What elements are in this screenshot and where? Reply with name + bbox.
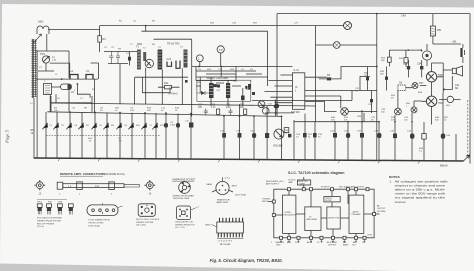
svg-text:AF IN: AF IN	[307, 241, 313, 244]
wire gang to rail	[33, 98, 35, 158]
capacitor C40	[390, 131, 397, 139]
capacitor C36	[357, 131, 364, 138]
svg-text:VOLUME: VOLUME	[273, 146, 283, 148]
svg-text:PIN 1: PIN 1	[37, 202, 43, 204]
wires near pot	[252, 101, 352, 117]
svg-text:TRANSISTOR: TRANSISTOR	[217, 198, 231, 201]
SIC right label	[377, 205, 386, 213]
node d	[376, 66, 378, 68]
svg-text:PIN: PIN	[48, 202, 52, 204]
test point TP1	[196, 55, 203, 67]
svg-text:S.I.C. TA7100 schematic diagra: S.I.C. TA7100 schematic diagram	[288, 171, 345, 175]
detector labels	[197, 69, 254, 92]
SIC left label	[262, 199, 270, 204]
coil L6 slug	[61, 84, 75, 94]
wire long vertical	[277, 14, 377, 160]
svg-text:BASS: BASS	[343, 244, 349, 247]
svg-text:GND: GND	[276, 245, 281, 247]
svg-text:IC: IC	[295, 85, 298, 89]
svg-text:+B1: +B1	[452, 41, 457, 44]
node j2	[77, 83, 79, 85]
electrolytic C38	[374, 131, 381, 139]
tuning gang VC1 ladder	[31, 39, 36, 98]
detector module box	[197, 80, 251, 101]
transistor TR7	[412, 82, 424, 89]
bus C	[192, 66, 293, 68]
resistor R51	[430, 14, 442, 44]
svg-text:REMOTE AMPL CONNECTIONS: REMOTE AMPL CONNECTIONS	[60, 172, 105, 176]
front-end vertical links	[50, 79, 94, 112]
capacitor C24b	[229, 109, 233, 116]
wire bus B corner	[315, 26, 317, 122]
svg-text:AMPLIFIER: AMPLIFIER	[307, 218, 318, 221]
node c2	[220, 66, 222, 68]
svg-text:S.I.C.: S.I.C.	[294, 69, 301, 72]
node bus	[145, 25, 147, 27]
diode D5	[319, 74, 341, 80]
H2 bus	[47, 112, 281, 117]
svg-text:Page 5: Page 5	[5, 129, 10, 144]
svg-text:C13: C13	[167, 58, 172, 61]
transistor base view	[212, 177, 233, 194]
detector cluster wires	[192, 31, 268, 116]
coil L5	[86, 69, 93, 79]
wires detector verticals	[200, 67, 236, 107]
rail end mark	[464, 155, 470, 161]
plug front nut	[34, 180, 45, 196]
aerial AE1	[34, 20, 50, 44]
svg-text:VIEWED ON PINS: VIEWED ON PINS	[136, 222, 154, 224]
diode D16	[152, 123, 158, 130]
svg-text:PHOTO CELL CON BOX: PHOTO CELL CON BOX	[136, 219, 160, 221]
coil L4	[70, 69, 78, 79]
labels detector row	[198, 105, 245, 110]
caption photo cell	[136, 219, 160, 227]
IFT T1	[136, 46, 141, 70]
svg-text:R1: R1	[103, 37, 107, 41]
H1 bus	[51, 103, 316, 106]
svg-text:CHASSIS: CHASSIS	[275, 241, 284, 244]
svg-text:EMIT: EMIT	[232, 185, 238, 187]
earphone socket title	[172, 179, 196, 182]
svg-text:(DIN 41524): (DIN 41524)	[89, 225, 101, 227]
svg-text:TA-7061AP: TA-7061AP	[220, 243, 232, 246]
coil L7	[167, 58, 172, 66]
svg-text:C54: C54	[417, 63, 422, 66]
node j1	[61, 78, 63, 80]
electrolytic C44	[441, 134, 451, 139]
plug barrel	[57, 182, 139, 190]
SIC block preamp	[349, 195, 364, 233]
svg-text:AM DET + AGC AMP: AM DET + AGC AMP	[207, 77, 229, 80]
SIC terminals top	[288, 188, 370, 191]
IFT T3	[158, 50, 163, 70]
capacitor C32	[330, 131, 337, 138]
wire IF top links	[142, 26, 268, 40]
resistor R48	[419, 122, 426, 153]
rail hatching	[58, 158, 420, 164]
svg-text:VIEWED FROM W.POINT: VIEWED FROM W.POINT	[37, 221, 62, 223]
svg-text:COLL: COLL	[225, 177, 231, 179]
svg-text:AMP SUPPLY: AMP SUPPLY	[266, 183, 280, 186]
caption earphone	[173, 194, 195, 200]
diode D14	[128, 123, 134, 130]
transistor TR9	[426, 96, 443, 106]
SIC bottom arrows	[280, 239, 365, 242]
svg-text:1 2 3 4 5 6 7 8 9: 1 2 3 4 5 6 7 8 9	[218, 241, 233, 243]
wire osc row	[36, 78, 98, 80]
plug tip labels	[59, 193, 113, 195]
SIC block if amp	[305, 207, 321, 231]
svg-text:OSCILLATOR COIL: OSCILLATOR COIL	[175, 221, 194, 224]
svg-text:PLUG VIEWED FROM: PLUG VIEWED FROM	[89, 220, 110, 222]
svg-text:VR50: VR50	[205, 225, 211, 227]
svg-text:I.F.: I.F.	[309, 217, 312, 219]
battery B1	[433, 41, 465, 64]
svg-text:(W.MODE PLUG): (W.MODE PLUG)	[105, 172, 125, 176]
S.I.C. IC1	[291, 69, 305, 114]
meter M1	[344, 22, 352, 30]
svg-text:AMP: AMP	[289, 181, 294, 184]
diode D10	[78, 123, 84, 130]
capacitor C11	[185, 121, 193, 128]
IFT T2	[143, 52, 146, 61]
SIC terminals bottom	[280, 236, 367, 239]
IFT T5	[209, 83, 214, 98]
SIC ripple filter	[324, 197, 340, 203]
electrolytic C50	[422, 44, 431, 66]
svg-text:(1.6 + 1.6): (1.6 + 1.6)	[175, 227, 185, 229]
svg-text:NOISE: NOISE	[285, 212, 292, 214]
svg-text:BASE VIEW: BASE VIEW	[217, 201, 228, 204]
capacitor C19	[236, 131, 241, 138]
IF vertical links	[120, 64, 182, 105]
wire IF row	[104, 52, 137, 64]
SIC labels top	[266, 180, 365, 189]
jack SK1	[439, 96, 460, 102]
IC DIP package	[217, 218, 244, 243]
diode D15	[141, 123, 147, 130]
oscillator coil socket	[177, 206, 200, 220]
lamp PL1	[316, 42, 377, 49]
connector pins 3	[58, 204, 63, 215]
svg-text:TR1 B TR2: TR1 B TR2	[167, 43, 180, 46]
transistor TR11	[411, 107, 417, 113]
mid labels row	[54, 108, 180, 112]
svg-text:TR1: TR1	[40, 52, 45, 56]
SIC outer box	[274, 189, 374, 238]
earphone socket	[179, 182, 191, 194]
capacitor C54	[417, 60, 423, 77]
svg-text:receiver.: receiver.	[395, 200, 407, 204]
svg-text:PRE-AMP: PRE-AMP	[352, 213, 362, 216]
labels right row top	[331, 117, 449, 121]
bias row drops left	[46, 104, 294, 160]
SIC osc box	[297, 180, 310, 185]
node row	[69, 111, 282, 117]
svg-text:TUNING: TUNING	[262, 199, 270, 201]
diode D1	[197, 91, 209, 95]
resistor R32	[244, 109, 247, 114]
IC right pins	[305, 77, 377, 101]
tone pot VR2	[258, 101, 265, 108]
capacitor C25	[245, 86, 250, 90]
capacitor C16 inside box	[214, 84, 217, 87]
wire filter links	[37, 50, 90, 158]
capacitor C2	[109, 51, 113, 64]
diode D12	[103, 123, 109, 130]
IC package VR50 arrow	[205, 225, 211, 227]
caption transistor view	[217, 198, 231, 204]
svg-text:DETECTOR: DETECTOR	[328, 218, 340, 220]
capacitor C26	[313, 122, 317, 161]
transistor TR1	[40, 52, 50, 63]
svg-text:USE: USE	[58, 202, 63, 204]
electrolytic C34b	[268, 104, 279, 109]
connector pins 1	[37, 204, 42, 215]
svg-text:R.M: R.M	[95, 186, 99, 188]
wire osc vertical	[50, 63, 99, 79]
SIC terminals sides	[272, 200, 375, 217]
coil L8	[176, 61, 180, 69]
capacitor C18	[220, 131, 226, 138]
svg-text:(18+0.5M): (18+0.5M)	[136, 225, 146, 227]
volume pot VR1	[273, 129, 290, 148]
svg-text:TR9: TR9	[438, 102, 443, 105]
caption oscillator socket	[175, 221, 195, 230]
svg-text:REGULATED (DC): REGULATED (DC)	[266, 180, 284, 183]
electrolytic C8	[164, 122, 176, 128]
pin table	[37, 202, 63, 204]
diode D8	[53, 123, 59, 130]
svg-text:PLUG (BUTTON SHOWN): PLUG (BUTTON SHOWN)	[37, 218, 62, 220]
photo cell socket	[138, 204, 155, 217]
svg-text:TA7100: TA7100	[291, 111, 300, 114]
din plug face	[87, 203, 123, 216]
svg-text:(3.5+4): (3.5+4)	[37, 226, 44, 228]
IF top labels	[104, 21, 299, 56]
pot twin circle	[263, 108, 270, 115]
resistor R14	[158, 82, 180, 89]
svg-text:REGULATOR: REGULATOR	[284, 214, 297, 217]
transistor TR2	[145, 59, 153, 67]
detector extra wires	[196, 71, 262, 86]
connector pins 2	[47, 204, 52, 215]
electrolytic C42	[407, 131, 414, 139]
wire aerial feed	[36, 29, 100, 51]
right row wires	[294, 93, 456, 161]
svg-text:OUTPUT: OUTPUT	[377, 208, 386, 210]
svg-text:THROUGH CASE: THROUGH CASE	[173, 197, 190, 200]
wire det box left	[191, 39, 193, 66]
diode D11	[91, 123, 97, 130]
resistor R30	[217, 109, 220, 114]
svg-text:R51: R51	[437, 29, 442, 32]
dashed AGC line	[46, 135, 160, 137]
electrolytic C34	[344, 131, 350, 139]
label R6	[31, 129, 35, 135]
svg-text:OUTPUT: OUTPUT	[328, 245, 337, 247]
diode D13	[116, 123, 122, 130]
svg-text:AE1: AE1	[38, 20, 44, 24]
svg-text:END OF PHONES: END OF PHONES	[37, 223, 55, 225]
capacitor C28	[303, 114, 307, 161]
caption din	[89, 220, 110, 228]
wire R1 vertical	[99, 26, 101, 52]
cap row labels	[49, 125, 165, 127]
svg-text:DET & AGC/AMP OUTPUT: DET & AGC/AMP OUTPUT	[339, 185, 365, 188]
transistor row Q-cluster	[42, 123, 158, 130]
resistor R1	[98, 36, 107, 42]
svg-text:IF INPUT: IF INPUT	[321, 186, 330, 188]
ceramic filter CF1	[44, 84, 52, 95]
svg-text:TP: TP	[219, 48, 223, 52]
svg-text:AUDIO: AUDIO	[353, 211, 360, 214]
resistor R36	[284, 128, 291, 138]
node row2	[334, 121, 413, 123]
svg-text:SW1: SW1	[137, 43, 143, 46]
svg-text:MIXER: MIXER	[300, 183, 306, 185]
svg-text:(NOT GRN): (NOT GRN)	[235, 195, 246, 197]
diode D9	[66, 123, 72, 130]
caption plug bottom	[37, 218, 62, 228]
diode D6 box	[398, 82, 406, 91]
svg-text:B910A: B910A	[440, 164, 448, 168]
plug end connector	[144, 180, 155, 196]
labels mid row	[296, 134, 323, 138]
SIC bottom labels	[271, 241, 365, 247]
capacitor C24	[241, 88, 245, 106]
detector extra blobs	[185, 80, 255, 95]
svg-text:VIEWED FROM TOP: VIEWED FROM TOP	[175, 224, 195, 226]
audio labels	[355, 71, 451, 118]
svg-text:EARPHONE SOCKET: EARPHONE SOCKET	[172, 179, 196, 182]
transistor TR8	[426, 72, 443, 82]
wire tr4	[135, 77, 188, 93]
labels transistor view	[207, 177, 247, 196]
svg-text:C48: C48	[401, 15, 406, 18]
svg-text:VIEWED FROM REAR: VIEWED FROM REAR	[173, 194, 195, 197]
svg-text:Fig. 5. Circuit diagram, TR23: Fig. 5. Circuit diagram, TR230, B910.	[210, 258, 283, 263]
SIC inner wires	[268, 177, 380, 238]
connector pins 4	[68, 204, 73, 215]
NOTES body	[389, 179, 448, 204]
speaker LS1	[443, 66, 462, 90]
svg-text:BASE: BASE	[207, 183, 213, 186]
SIC block regulator	[283, 195, 297, 233]
output wires	[398, 63, 443, 125]
resistor R44	[381, 50, 391, 67]
label AGC	[88, 138, 122, 143]
IFT T4	[184, 50, 188, 68]
capacitor C52	[403, 60, 410, 77]
wire mixer	[38, 51, 69, 78]
svg-text:1.: 1.	[389, 179, 392, 183]
bus B	[100, 25, 316, 27]
title remote ampl connections	[60, 172, 125, 176]
audio extra wires	[364, 67, 387, 122]
transistor TR10	[395, 108, 402, 115]
audio small parts	[366, 77, 388, 103]
test point TP2	[217, 46, 224, 67]
transistor TR6	[341, 108, 349, 116]
audio wires	[325, 67, 377, 112]
IC left pins	[264, 75, 292, 103]
bias box wires	[390, 50, 422, 58]
capacitor C3	[116, 51, 120, 64]
diode D7	[42, 123, 48, 130]
resistor R45	[399, 58, 408, 67]
svg-text:TR4 B+C: TR4 B+C	[168, 93, 178, 96]
electrolytic C10	[176, 123, 180, 128]
driver stage wires	[352, 77, 370, 101]
node c1	[198, 66, 200, 68]
SIC block detector	[327, 207, 340, 229]
IFT T6	[226, 83, 230, 98]
capacitor C4	[128, 52, 131, 66]
front-end labels	[30, 57, 96, 105]
dashed earphone line	[467, 100, 469, 158]
electrolytic C30	[275, 97, 279, 114]
svg-text:R14: R14	[164, 82, 169, 85]
svg-text:FRONT OF SET: FRONT OF SET	[89, 223, 105, 225]
electrolytic C20	[250, 131, 256, 139]
svg-text:TR7: TR7	[419, 82, 424, 85]
node a1	[376, 13, 378, 15]
capacitor C17	[204, 109, 208, 116]
svg-text:INPUT: INPUT	[262, 201, 269, 203]
svg-text:0.047: 0.047	[170, 125, 176, 127]
svg-text:(TOP): (TOP)	[367, 235, 372, 237]
ground rail	[34, 158, 464, 161]
svg-text:(EXTRA): (EXTRA)	[377, 210, 386, 213]
top bus A	[277, 14, 470, 164]
svg-text:8Ω: 8Ω	[455, 87, 458, 90]
left sub box	[51, 96, 92, 112]
svg-text:FILTER: FILTER	[326, 200, 333, 202]
